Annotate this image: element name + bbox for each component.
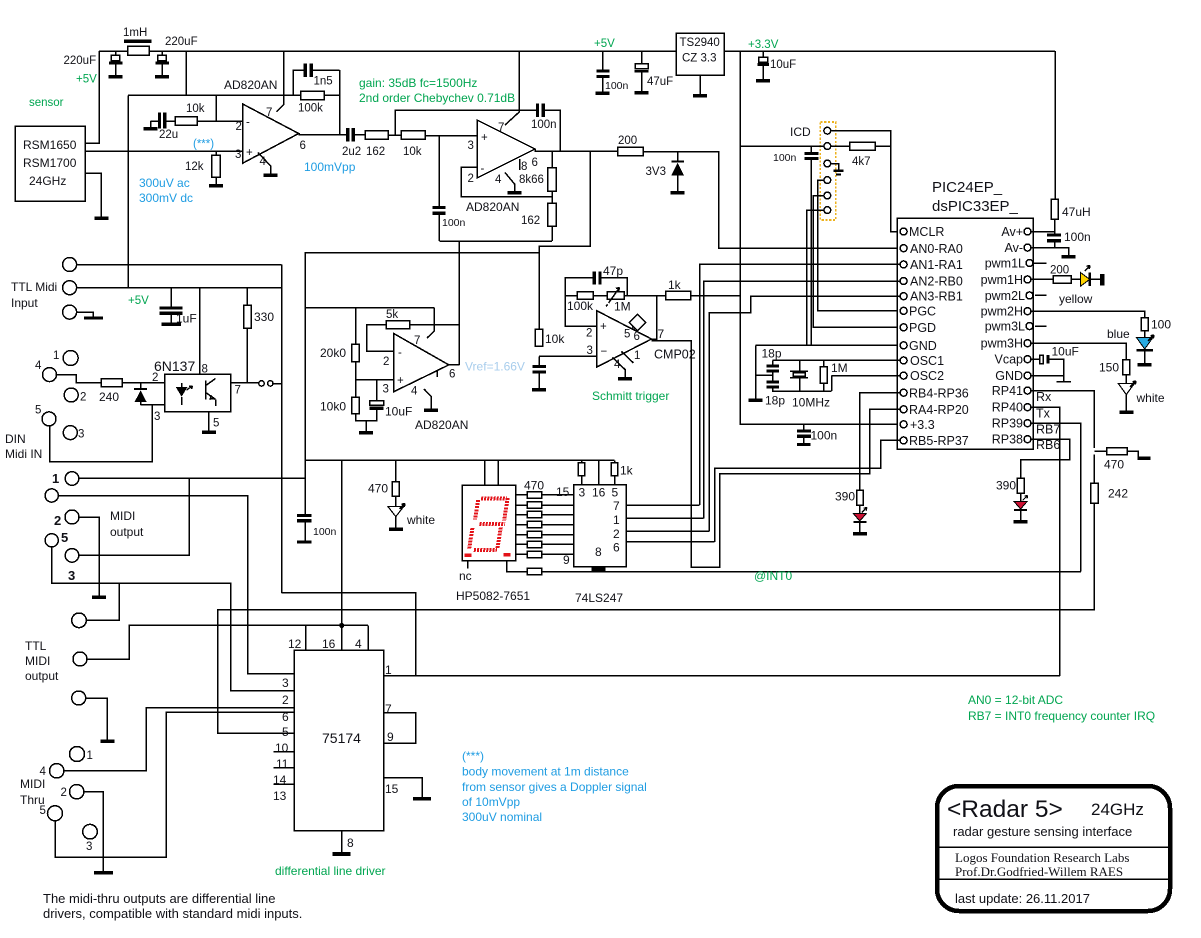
wire RP38 RB6 net xyxy=(1021,439,1070,478)
svg-text:Av-: Av- xyxy=(1004,241,1023,255)
capacitor 100n (ICD) xyxy=(810,146,812,152)
wire OSC2 riser xyxy=(831,376,833,391)
svg-text:5: 5 xyxy=(624,329,630,341)
wire thru pin2 ground xyxy=(84,792,103,871)
display nc pin xyxy=(467,561,469,569)
resistor 1k pullup (pin5) xyxy=(614,460,616,462)
wire 6N137 pin7 output xyxy=(231,382,259,384)
wire op2 output xyxy=(535,149,618,151)
wire CMP02 output to RA4 xyxy=(652,341,901,568)
svg-text:162: 162 xyxy=(366,146,385,158)
wire ICD pin4 to PGC xyxy=(818,180,900,311)
svg-text:−: − xyxy=(601,346,608,358)
svg-text:AN1-RA1: AN1-RA1 xyxy=(910,258,963,272)
svg-text:24GHz: 24GHz xyxy=(29,174,66,188)
svg-text:3: 3 xyxy=(235,149,241,161)
svg-text:pwm3H: pwm3H xyxy=(981,337,1023,351)
svg-text:CMP02: CMP02 xyxy=(654,348,696,362)
svg-text:200: 200 xyxy=(1050,265,1069,277)
svg-text:from sensor gives a Doppler si: from sensor gives a Doppler signal xyxy=(462,780,647,794)
svg-text:4: 4 xyxy=(40,766,47,778)
svg-text:pwm3L: pwm3L xyxy=(985,320,1025,334)
comparator pin1 diagonal xyxy=(622,352,634,364)
wire divider ground xyxy=(356,410,377,425)
wire Vref +5V row xyxy=(305,307,434,309)
resistor 1M (crystal) xyxy=(823,360,825,367)
resistor 10k (op2 input) xyxy=(388,134,401,136)
svg-text:4: 4 xyxy=(355,637,362,651)
capacitor 47p xyxy=(593,272,596,285)
wire TTL input pin1 xyxy=(77,264,282,266)
6N137 internal transistor xyxy=(206,379,216,407)
svg-text:+3.3: +3.3 xyxy=(910,418,935,432)
resistor 4k7 xyxy=(831,145,850,147)
capacitor 100n (5V rail) xyxy=(602,51,604,70)
resistor 100k (hysteresis) xyxy=(565,295,577,297)
svg-text:+3.3V: +3.3V xyxy=(748,39,779,51)
svg-text:10uF: 10uF xyxy=(1052,345,1079,359)
wire 74LS247 pin16 xyxy=(598,460,600,484)
svg-text:RB7 = INT0 frequency counter I: RB7 = INT0 frequency counter IRQ xyxy=(968,709,1155,723)
svg-text:AD820AN: AD820AN xyxy=(415,418,468,432)
crystal 10MHz xyxy=(790,360,808,391)
resistor 200 (AN0) xyxy=(618,147,643,155)
svg-text:5: 5 xyxy=(35,405,41,417)
svg-text:100n: 100n xyxy=(811,429,838,443)
svg-text:12k: 12k xyxy=(185,161,204,173)
svg-text:7: 7 xyxy=(498,122,504,134)
svg-text:ICD: ICD xyxy=(790,125,811,139)
svg-text:7: 7 xyxy=(266,107,272,119)
svg-text:18p: 18p xyxy=(765,394,785,408)
svg-text:2: 2 xyxy=(61,787,67,799)
svg-text:MIDI: MIDI xyxy=(25,654,50,668)
wire ttl out b to 75174 tie xyxy=(87,625,368,659)
svg-text:220uF: 220uF xyxy=(64,55,97,67)
svg-text:6: 6 xyxy=(634,331,640,343)
svg-text:RB5-RP37: RB5-RP37 xyxy=(909,434,969,448)
svg-text:RSM1650: RSM1650 xyxy=(23,138,77,152)
wire AN3 net xyxy=(709,296,900,531)
svg-text:100n: 100n xyxy=(773,152,797,164)
svg-text:RP38: RP38 xyxy=(992,433,1023,447)
wire thru pin5 to 75174 pin5 xyxy=(55,712,294,857)
wire 74LS247 pin7 out xyxy=(626,504,699,506)
svg-text:OSC2: OSC2 xyxy=(910,369,944,383)
svg-text:<Radar 5>: <Radar 5> xyxy=(947,796,1063,823)
svg-text:4k7: 4k7 xyxy=(852,156,871,168)
wire RB5 net xyxy=(715,440,900,542)
svg-text:10k: 10k xyxy=(403,146,422,158)
LED yellow xyxy=(1071,278,1080,280)
svg-text:8: 8 xyxy=(347,836,354,850)
svg-text:100k: 100k xyxy=(298,103,323,115)
wire OSC1 line xyxy=(773,359,901,361)
resistor 10k (Schmitt input) xyxy=(535,329,543,346)
capacitor 18p (top) xyxy=(772,360,774,364)
wire GND pin to ground xyxy=(1031,375,1064,377)
svg-text:150: 150 xyxy=(1099,361,1119,375)
svg-text:3: 3 xyxy=(383,384,389,396)
svg-text:AD820AN: AD820AN xyxy=(466,200,519,214)
svg-text:300uV nominal: 300uV nominal xyxy=(462,810,542,824)
wire op1 feedback to output xyxy=(339,70,341,135)
svg-text:AN0-RA0: AN0-RA0 xyxy=(910,242,963,256)
capacitor 100n (op2 bias) xyxy=(438,136,440,206)
wire 74LS247 pin8 ground xyxy=(598,566,600,569)
svg-text:10MHz: 10MHz xyxy=(792,396,830,410)
svg-text:470: 470 xyxy=(1104,458,1124,472)
sensor module RSM1650/RSM1700 24GHz xyxy=(15,126,85,201)
LED white xyxy=(1125,375,1127,384)
svg-text:1: 1 xyxy=(613,513,620,527)
resistor 1k pullup (pin3) xyxy=(581,460,583,462)
resistor 470 (Rx) xyxy=(1094,450,1106,452)
svg-text:white: white xyxy=(1136,391,1165,405)
svg-text:100n: 100n xyxy=(442,217,466,229)
svg-text:5k: 5k xyxy=(386,309,398,321)
resistor 100k (op1 feedback) xyxy=(301,91,324,99)
svg-text:74LS247: 74LS247 xyxy=(575,591,623,605)
diode (input protect) xyxy=(140,383,142,388)
svg-text:470: 470 xyxy=(368,482,388,496)
svg-text:8: 8 xyxy=(595,545,602,559)
svg-text:+5V: +5V xyxy=(128,295,149,307)
svg-text:14: 14 xyxy=(273,773,287,787)
zener diode 3V3 xyxy=(677,152,679,161)
wire RB4 led net xyxy=(860,393,900,491)
wire op1 output xyxy=(299,134,348,136)
svg-text:75174: 75174 xyxy=(322,730,361,746)
capacitor 100n (Av+) xyxy=(1047,233,1061,236)
wire TTL input pin3 ground xyxy=(77,312,94,316)
svg-text:(***): (***) xyxy=(462,749,484,763)
wire crystal ground rail xyxy=(756,345,773,398)
svg-text:6: 6 xyxy=(449,369,455,381)
svg-text:RB6: RB6 xyxy=(1036,438,1060,452)
wire signal branch to display rail xyxy=(305,253,539,514)
svg-text:16: 16 xyxy=(592,486,606,500)
wire ICD pin6 to GND xyxy=(807,210,824,345)
svg-text:pwm1H: pwm1H xyxy=(981,273,1023,287)
wire CMP02 plus input node xyxy=(565,278,597,326)
wire RP40 Tx net xyxy=(1031,407,1060,676)
capacitor 100n (op2 feedback) xyxy=(545,110,560,151)
svg-text:TTL Midi: TTL Midi xyxy=(11,280,57,294)
wire DIN pin4 to 240 xyxy=(57,375,102,383)
svg-text:blue: blue xyxy=(1107,327,1130,341)
svg-text:390: 390 xyxy=(835,490,855,504)
svg-text:10uF: 10uF xyxy=(770,59,796,71)
wire op2 pin4 ground xyxy=(505,173,515,186)
display digit segments (red) xyxy=(469,498,509,550)
resistor 1k (pullup to 3.3) xyxy=(666,291,691,299)
svg-text:2: 2 xyxy=(613,527,620,541)
svg-text:4: 4 xyxy=(495,174,502,186)
capacitor 10uF (3.3V rail) xyxy=(762,51,764,57)
svg-text:RP39: RP39 xyxy=(992,417,1023,431)
svg-text:9: 9 xyxy=(563,553,570,567)
svg-text:100n: 100n xyxy=(605,80,629,92)
wire ICD pin5 to PGD xyxy=(813,196,900,328)
wire 6N137 pin5 ground xyxy=(208,412,210,425)
ICD connector (yellow dashed) xyxy=(820,122,835,220)
wire op1 pin4 to ground xyxy=(258,153,271,168)
wire TTL in pin1 drop xyxy=(281,265,283,593)
resistor 242 xyxy=(1091,483,1098,503)
svg-text:AN0 = 12-bit ADC: AN0 = 12-bit ADC xyxy=(968,693,1063,707)
svg-text:pwm1L: pwm1L xyxy=(985,257,1025,271)
svg-text:RSM1700: RSM1700 xyxy=(23,156,77,170)
PIC right pin labels xyxy=(981,225,1025,447)
svg-text:220uF: 220uF xyxy=(165,36,198,48)
svg-text:sensor: sensor xyxy=(29,97,64,109)
svg-text:RP41: RP41 xyxy=(992,384,1023,398)
svg-text:100n: 100n xyxy=(531,119,557,131)
svg-text:10k: 10k xyxy=(186,103,205,115)
svg-text:output: output xyxy=(25,669,59,683)
svg-text:7: 7 xyxy=(385,702,392,716)
capacitor 100n (midi out net) xyxy=(79,460,305,514)
svg-text:1: 1 xyxy=(87,750,93,762)
svg-text:4: 4 xyxy=(35,360,42,372)
wire midi out pin2 ground xyxy=(79,517,99,593)
svg-text:AN3-RB1: AN3-RB1 xyxy=(910,290,963,304)
wire op2 pin7 to +5V xyxy=(505,51,519,125)
svg-text:10uF: 10uF xyxy=(385,405,412,419)
capacitor 100n (Schmitt) xyxy=(538,356,540,365)
wire RP39 RB7 net xyxy=(1031,423,1081,571)
svg-text:2: 2 xyxy=(383,356,389,368)
resistor 20k0 xyxy=(355,308,357,345)
svg-text:RB7: RB7 xyxy=(1036,423,1060,437)
svg-text:1: 1 xyxy=(634,350,640,362)
LED white (display) xyxy=(395,496,397,506)
svg-text:18p: 18p xyxy=(762,347,782,361)
wire OSC2 line xyxy=(832,375,901,377)
wire 75174 pins 12/16/4 tie xyxy=(306,625,368,650)
svg-text:7: 7 xyxy=(658,327,665,341)
svg-text:6: 6 xyxy=(532,157,538,169)
svg-text:+5V: +5V xyxy=(76,74,97,86)
svg-text:6: 6 xyxy=(613,541,620,555)
capacitor 2u2 xyxy=(346,128,349,141)
svg-text:@INT0: @INT0 xyxy=(754,569,793,583)
svg-text:3: 3 xyxy=(154,411,160,423)
svg-text:Vref=1.66V: Vref=1.66V xyxy=(465,360,525,374)
PIC right outside labels Rx Tx RB7 RB6 xyxy=(1036,390,1060,452)
svg-text:1uF: 1uF xyxy=(176,312,197,326)
op-amp U3 AD820AN (Vref) xyxy=(394,333,449,391)
svg-text:1M: 1M xyxy=(831,361,848,375)
svg-text:+: + xyxy=(600,321,607,333)
svg-text:7: 7 xyxy=(235,385,241,397)
svg-text:body movement at 1m distance: body movement at 1m distance xyxy=(462,765,629,779)
wire U3 output (Vref rail) xyxy=(449,364,460,366)
LED blue xyxy=(1144,331,1146,338)
svg-text:16: 16 xyxy=(322,637,336,651)
svg-text:Prof.Dr.Godfried-Willem RAES: Prof.Dr.Godfried-Willem RAES xyxy=(955,864,1123,879)
svg-text:12: 12 xyxy=(288,637,302,651)
svg-text:2nd order Chebychev 0.71dB: 2nd order Chebychev 0.71dB xyxy=(359,91,515,105)
svg-text:+: + xyxy=(246,147,253,159)
voltage regulator TS2940 CZ 3.3 xyxy=(676,33,724,75)
svg-text:-: - xyxy=(398,347,402,359)
wire ICD pin1 to MCLR xyxy=(831,131,900,232)
svg-text:242: 242 xyxy=(1108,487,1128,501)
resistor 330 xyxy=(246,288,248,305)
svg-text:1: 1 xyxy=(53,350,59,362)
svg-text:TTL: TTL xyxy=(25,639,47,653)
ground 22u input xyxy=(151,120,158,122)
svg-text:162: 162 xyxy=(521,215,540,227)
svg-text:13: 13 xyxy=(273,789,287,803)
wire U3 pin7 xyxy=(427,308,434,338)
svg-text:1n5: 1n5 xyxy=(314,76,333,88)
svg-text:6N137: 6N137 xyxy=(154,358,195,374)
display anode risers xyxy=(485,460,498,485)
resistor 10k0 xyxy=(352,397,360,414)
svg-text:2: 2 xyxy=(236,121,242,133)
capacitor 100n (+3.3 pin) xyxy=(803,424,805,429)
wire CMP02 pin4 ground xyxy=(613,358,626,372)
svg-text:PGD: PGD xyxy=(909,321,936,335)
svg-text:MCLR: MCLR xyxy=(909,225,944,239)
svg-text:8: 8 xyxy=(521,161,527,173)
svg-text:100mVpp: 100mVpp xyxy=(304,160,356,174)
wire pwm1L stub xyxy=(1033,262,1047,264)
display HP5082-7651 xyxy=(462,485,515,561)
wire op2 output to Schmitt xyxy=(539,151,590,346)
capacitor 10uF (Vref) xyxy=(376,380,378,401)
svg-text:2: 2 xyxy=(80,392,86,404)
svg-text:24GHz: 24GHz xyxy=(1091,800,1144,819)
resistor 8k66 xyxy=(548,168,557,191)
svg-text:6: 6 xyxy=(282,710,289,724)
wire ttl out a xyxy=(86,583,119,620)
op-amp U2 AD820AN xyxy=(477,120,535,178)
wire 74LS247 pin2 out xyxy=(626,530,709,532)
microcontroller U5 PIC24EP_/dsPIC33EP_ xyxy=(897,218,1033,449)
wire 75174 pin1 Tx xyxy=(384,675,1060,677)
svg-text:6: 6 xyxy=(300,140,306,152)
resistor 240 xyxy=(101,379,122,387)
wire 200 to AN0 xyxy=(643,152,900,249)
svg-text:390: 390 xyxy=(996,479,1016,493)
svg-text:300uV ac: 300uV ac xyxy=(139,176,190,190)
capacitor 47uF xyxy=(641,51,643,64)
svg-text:5: 5 xyxy=(612,486,619,500)
svg-text:4: 4 xyxy=(411,386,418,398)
svg-text:2u2: 2u2 xyxy=(342,146,361,158)
svg-text:15: 15 xyxy=(556,485,570,499)
wire display power row xyxy=(305,459,614,461)
wire U3 pin4 ground xyxy=(424,389,431,403)
svg-text:2: 2 xyxy=(282,693,289,707)
capacitor 18p (bottom) xyxy=(767,380,779,383)
wire op1 pin2 feedback riser xyxy=(215,95,217,121)
svg-text:HP5082-7651: HP5082-7651 xyxy=(456,589,530,603)
svg-text:RP40: RP40 xyxy=(992,401,1023,415)
svg-text:last update: 26.11.2017: last update: 26.11.2017 xyxy=(955,891,1090,906)
wire +5V branch to lower stage xyxy=(185,51,187,95)
resistor 470 (white led) xyxy=(395,460,397,481)
svg-text:47uF: 47uF xyxy=(647,76,673,88)
svg-text:20k0: 20k0 xyxy=(320,346,346,360)
resistor 150 (pwm3H) xyxy=(1031,343,1126,359)
svg-text:2: 2 xyxy=(54,513,61,528)
svg-text:2: 2 xyxy=(586,328,592,340)
wire op2 pin2 loop xyxy=(461,167,552,197)
capacitor 22u xyxy=(158,113,161,129)
svg-text:pwm2H: pwm2H xyxy=(981,305,1023,319)
title block xyxy=(937,786,1170,911)
svg-text:300mV dc: 300mV dc xyxy=(139,191,193,205)
svg-text:+5V: +5V xyxy=(594,38,615,50)
svg-text:DIN: DIN xyxy=(5,432,26,446)
svg-text:Rx: Rx xyxy=(1036,390,1052,404)
wire 74LS247 pin1 out xyxy=(626,517,704,519)
svg-text:3: 3 xyxy=(282,676,289,690)
svg-text:Av+: Av+ xyxy=(1001,225,1023,239)
svg-text:22u: 22u xyxy=(159,129,178,141)
svg-text:7: 7 xyxy=(613,499,620,513)
svg-text:5: 5 xyxy=(40,805,46,817)
capacitor 10uF (Vcap) xyxy=(1031,358,1040,360)
wire RP41 Rx net xyxy=(1031,391,1094,449)
potentiometer 1M xyxy=(593,295,607,297)
wire 330 junction xyxy=(246,383,248,385)
svg-text:1k: 1k xyxy=(620,464,634,478)
svg-text:AN2-RB0: AN2-RB0 xyxy=(910,275,963,289)
svg-text:2: 2 xyxy=(152,372,158,384)
wire CMP02 output riser xyxy=(652,296,657,342)
resistor 162 (series) xyxy=(355,134,365,136)
wire ttl out c ground xyxy=(86,698,108,737)
svg-text:yellow: yellow xyxy=(1059,292,1093,306)
svg-text:1: 1 xyxy=(52,471,59,486)
svg-text:OSC1: OSC1 xyxy=(910,354,944,368)
wire 75174 pins 7-9 loop xyxy=(384,713,416,743)
wire sensor supply riser xyxy=(85,51,99,143)
svg-text:-: - xyxy=(246,117,250,129)
wire GND line xyxy=(756,344,901,346)
svg-text:15: 15 xyxy=(385,782,399,796)
wire 75174 VCC riser xyxy=(341,460,343,625)
svg-text:radar gesture sensing interfac: radar gesture sensing interface xyxy=(953,824,1132,839)
svg-text:RA4-RP20: RA4-RP20 xyxy=(909,403,969,417)
svg-text:The midi-thru outputs are diff: The midi-thru outputs are differential l… xyxy=(43,891,275,906)
wire TTL input +5V row xyxy=(77,287,282,289)
svg-text:TS2940: TS2940 xyxy=(680,37,720,49)
wire +3.3V vertical feed xyxy=(740,51,900,424)
LED red (RB4) xyxy=(853,508,867,523)
svg-text:10k0: 10k0 xyxy=(320,400,346,414)
svg-text:8: 8 xyxy=(202,364,208,376)
resistor 100 (pwm2H) xyxy=(1031,311,1145,317)
svg-text:GND: GND xyxy=(995,369,1023,383)
6N137 internal led xyxy=(181,383,183,387)
svg-text:3: 3 xyxy=(86,841,92,853)
wire pwm3L stub xyxy=(1035,325,1047,327)
svg-text:3: 3 xyxy=(68,568,75,583)
svg-text:PGC: PGC xyxy=(909,305,936,319)
svg-text:+: + xyxy=(397,375,404,387)
svg-text:47uH: 47uH xyxy=(1062,205,1091,219)
svg-text:470: 470 xyxy=(524,479,544,493)
wire 6N137 out to Tx line xyxy=(282,593,416,676)
svg-text:100n: 100n xyxy=(1064,230,1091,244)
